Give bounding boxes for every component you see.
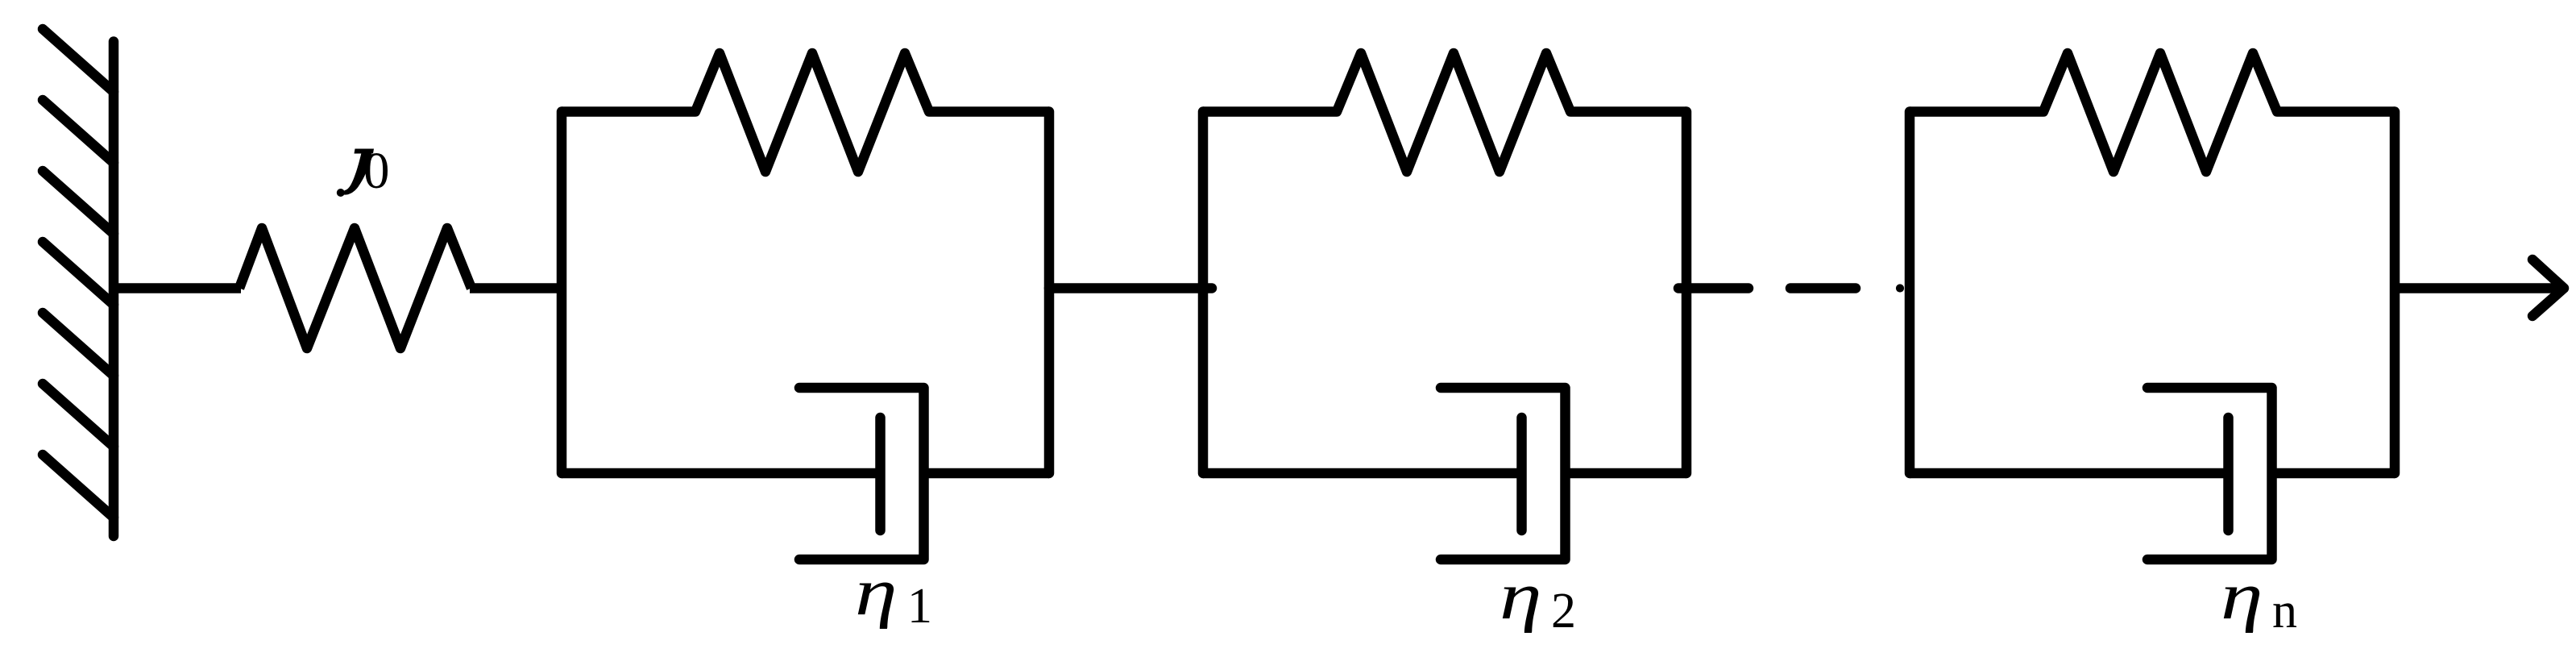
Kelvin unit 1 bottom edge left segment (562, 468, 882, 479)
Kelvin unit 2 bottom edge right segment (1566, 468, 1687, 479)
Kelvin unit 2 bottom edge left segment (1203, 468, 1524, 479)
output arrow shaft (2395, 283, 2564, 293)
Kelvin unit n bottom edge right segment (2272, 468, 2396, 479)
ground wall hatch 3 (43, 171, 114, 234)
svg-text:η: η (1500, 558, 1542, 633)
wire wall to spring J0 (114, 283, 241, 293)
svg-text:0: 0 (363, 142, 390, 200)
ground wall hatch 7 (43, 455, 114, 518)
Kelvin unit 1 top edge with spring K1 (562, 53, 1049, 172)
Kelvin unit n bottom edge left segment (1910, 468, 2230, 479)
dashed continuation wire segment 1 (1678, 283, 1748, 293)
svg-text:η: η (855, 554, 898, 629)
Kelvin unit 1 right edge (1044, 112, 1055, 474)
ground wall hatch 1 (43, 29, 114, 92)
spring J0 (239, 228, 471, 348)
dashpot 2 cylinder cup (1441, 388, 1566, 559)
Kelvin unit n left edge (1905, 112, 1915, 474)
dashpot 2 piston (1516, 418, 1527, 530)
svg-text:1: 1 (907, 579, 932, 634)
svg-text:n: n (2272, 584, 2297, 638)
ground wall hatch 6 (43, 384, 114, 447)
ground wall vertical line (109, 42, 119, 537)
Kelvin unit n top edge with spring Kn (1910, 53, 2395, 172)
dashpot n piston (2223, 418, 2234, 530)
Kelvin unit 1 left edge (557, 112, 567, 474)
Kelvin unit 2 right edge (1682, 112, 1692, 474)
ground wall hatch 4 (43, 242, 114, 305)
wire unit 1 to unit 2 (1049, 283, 1212, 293)
ground wall hatch 5 (43, 313, 114, 376)
dashed continuation wire dot (1896, 284, 1904, 292)
output arrow head (2532, 260, 2564, 316)
svg-text:η: η (2221, 558, 2263, 633)
Kelvin unit 2 left edge (1198, 112, 1209, 474)
Kelvin unit 2 top edge with spring K2 (1203, 53, 1686, 172)
dashpot n cylinder cup (2147, 388, 2272, 559)
Kelvin unit 1 bottom edge right segment (924, 468, 1050, 479)
dashed continuation wire segment 2 (1790, 283, 1856, 293)
dashpot 1 cylinder cup (799, 388, 924, 559)
ground wall hatch 2 (43, 100, 114, 163)
Kelvin unit n right edge (2390, 112, 2400, 474)
label J0 (355, 149, 375, 154)
svg-text:2: 2 (1551, 584, 1576, 638)
dashpot 1 piston (875, 418, 886, 530)
wire spring J0 to unit 1 (470, 283, 562, 293)
